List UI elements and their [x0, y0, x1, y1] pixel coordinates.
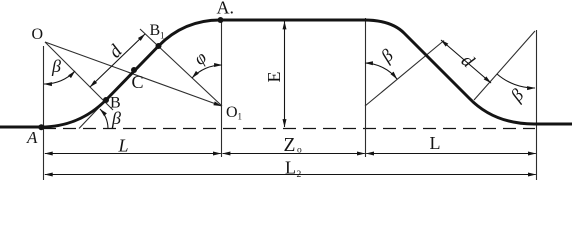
- svg-text:d: d: [105, 41, 127, 62]
- svg-text:O: O: [32, 26, 44, 43]
- svg-text:o: o: [297, 146, 302, 156]
- svg-text:β: β: [111, 108, 121, 128]
- svg-text:1: 1: [238, 112, 243, 122]
- svg-text:L: L: [285, 158, 296, 178]
- svg-text:β: β: [51, 56, 61, 76]
- svg-text:E: E: [264, 72, 284, 83]
- svg-text:1: 1: [160, 31, 165, 41]
- svg-text:A: A: [26, 128, 38, 147]
- svg-text:O: O: [226, 104, 238, 121]
- svg-text:A.: A.: [217, 0, 235, 18]
- svg-text:φ: φ: [190, 47, 211, 69]
- svg-text:Z: Z: [284, 135, 296, 156]
- svg-text:L: L: [118, 136, 129, 156]
- svg-text:C: C: [132, 72, 144, 92]
- svg-text:2: 2: [297, 170, 302, 180]
- svg-text:B: B: [150, 22, 161, 39]
- svg-text:L: L: [430, 133, 441, 153]
- svg-text:β: β: [506, 85, 528, 106]
- svg-text:β: β: [376, 45, 397, 67]
